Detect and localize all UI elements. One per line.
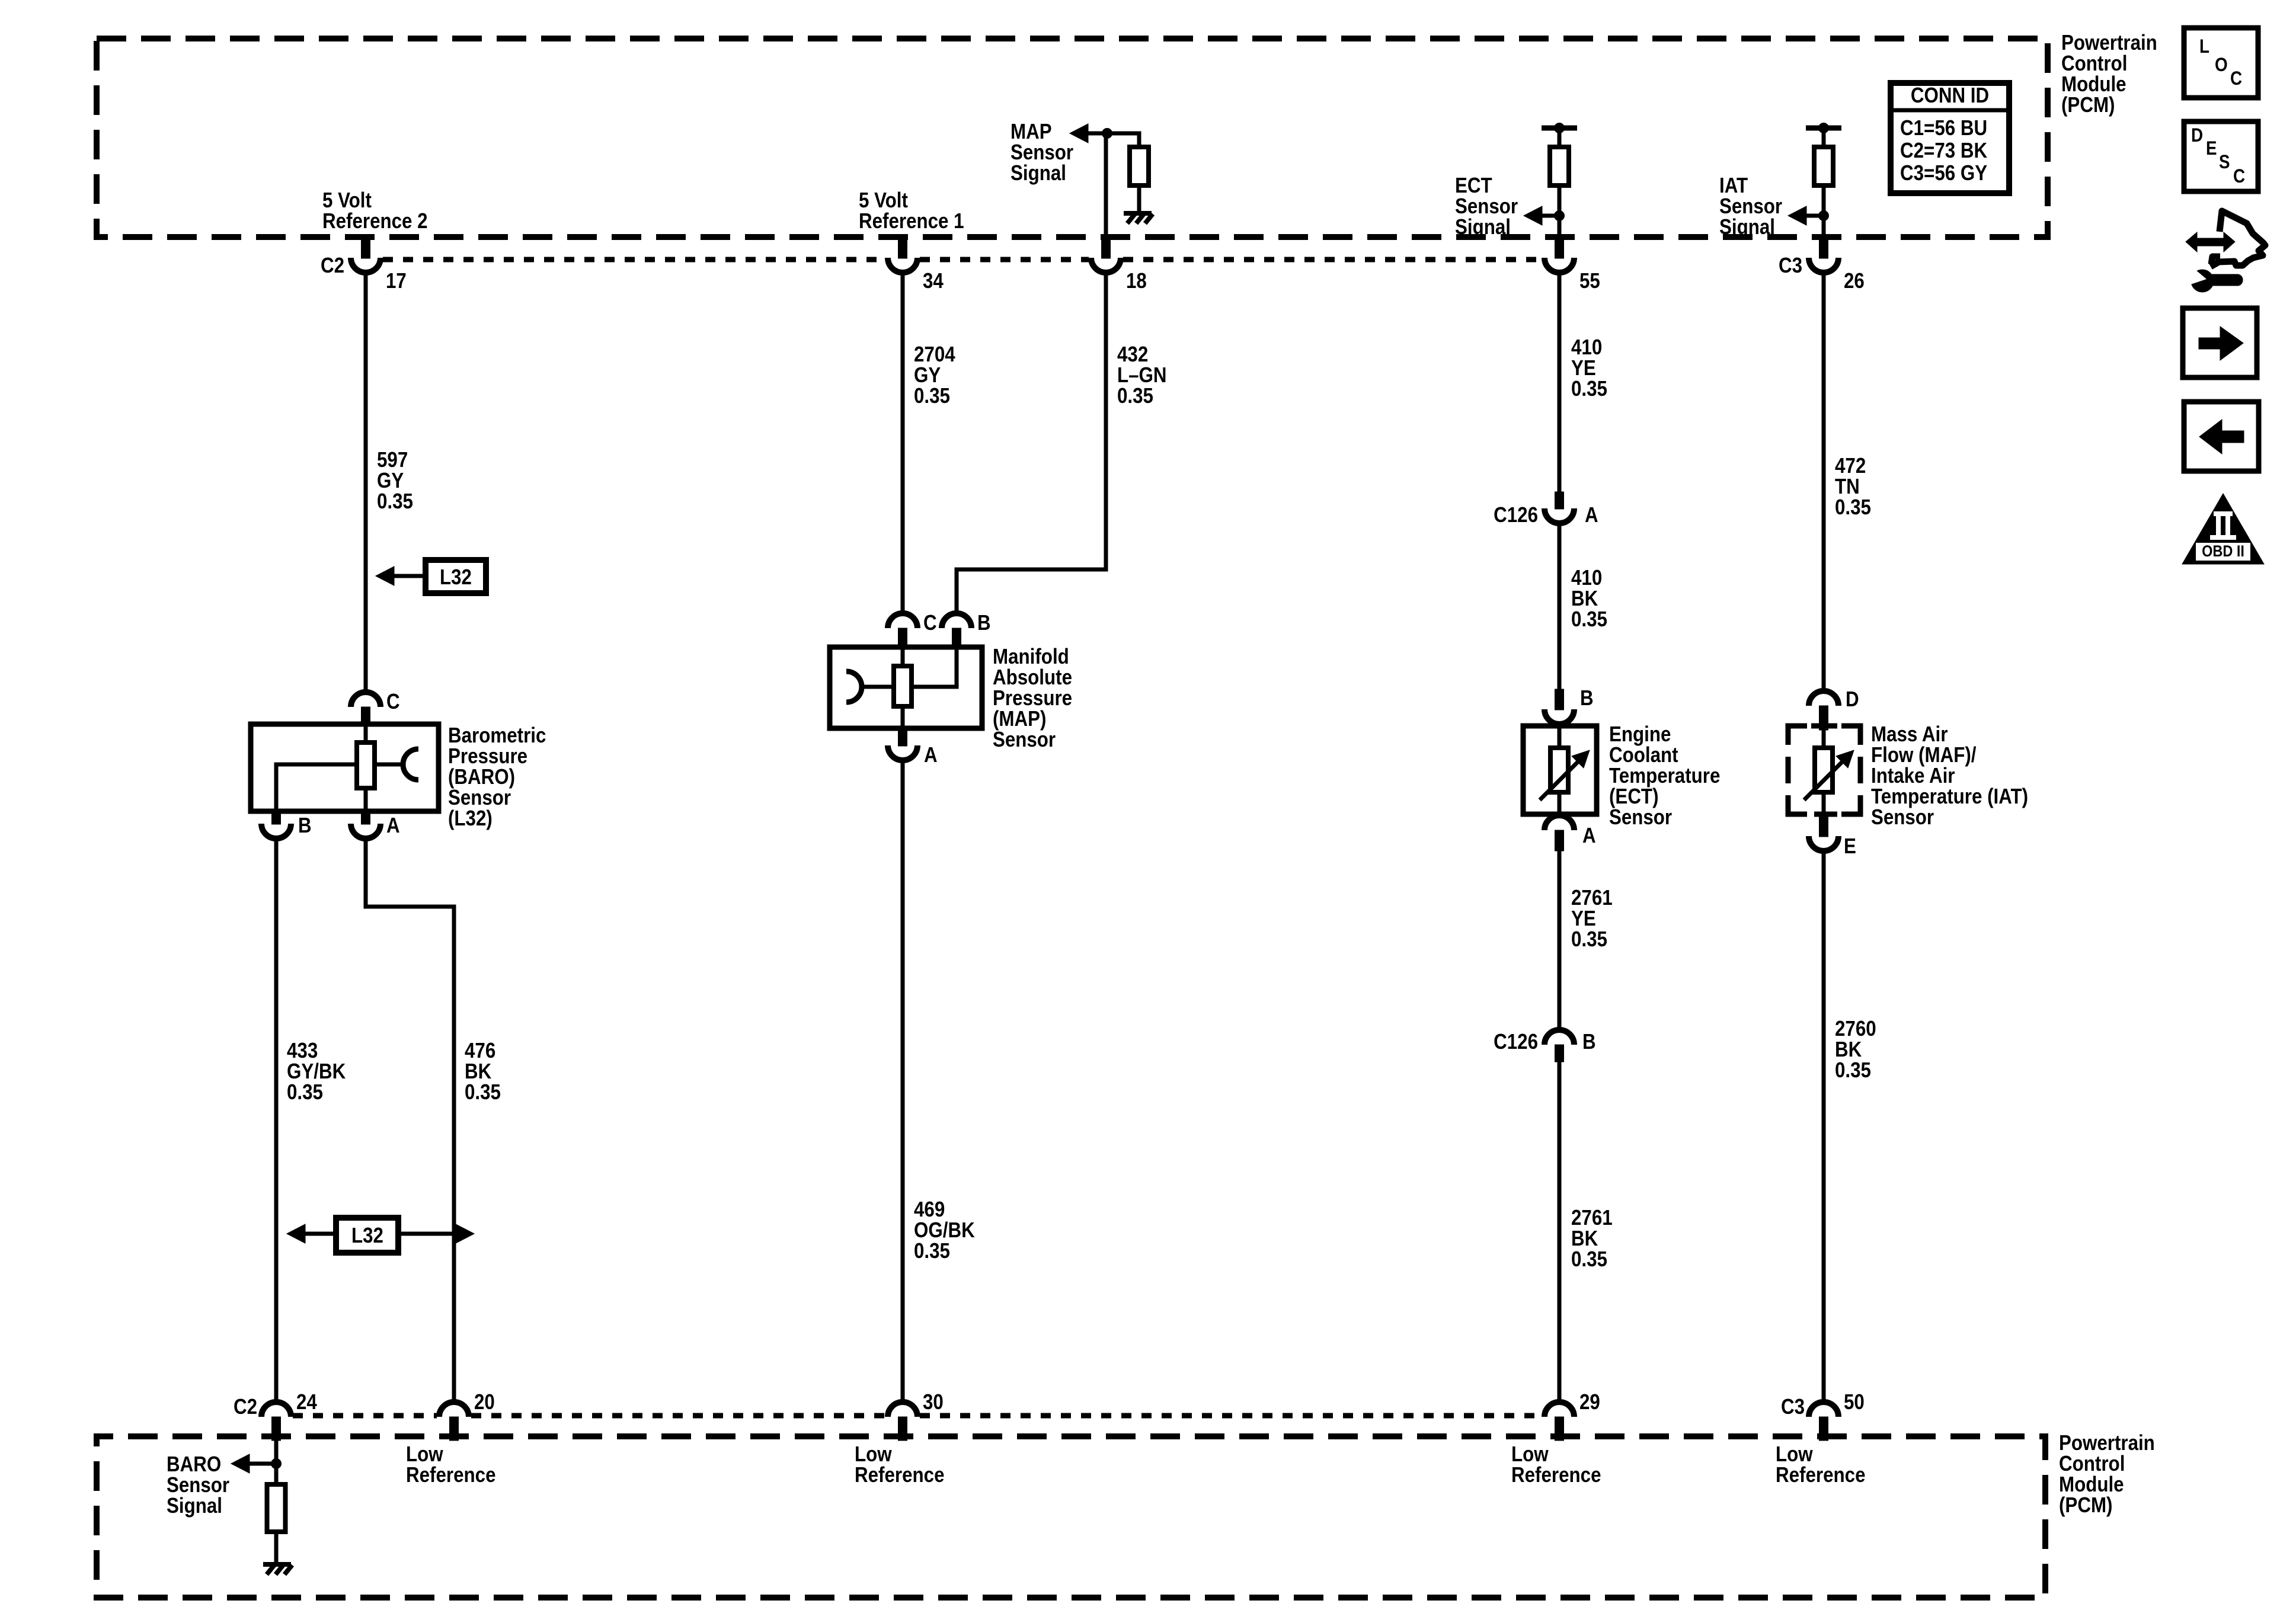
svg-text:O: O: [2215, 54, 2228, 75]
svg-text:0.35: 0.35: [1571, 927, 1607, 951]
svg-text:0.35: 0.35: [1835, 495, 1871, 519]
svg-text:OBD II: OBD II: [2202, 542, 2244, 560]
BARO pressure port line: [372, 763, 404, 767]
svg-text:0.35: 0.35: [1835, 1058, 1871, 1082]
wire R3 to junction: [1822, 185, 1826, 218]
svg-text:B: B: [298, 813, 312, 837]
MAP pressure port arc: [846, 671, 862, 702]
bottom connector dotted line C2: [293, 1413, 437, 1419]
wire 476 BK (BARO A jog to pin 20): [366, 838, 454, 1403]
svg-text:Signal: Signal: [167, 1493, 222, 1518]
svg-text:Reference: Reference: [1511, 1462, 1601, 1487]
BARO signal junction dot: [271, 1459, 282, 1469]
PCM module box (bottom): [97, 1436, 2045, 1598]
ECT internal wire element to A: [1558, 792, 1562, 814]
L32 callout box (lower): [336, 1218, 398, 1253]
svg-text:A: A: [924, 742, 938, 767]
wire 410 YE (pin 55 to C126 A): [1558, 272, 1562, 493]
wire R4 to ground: [274, 1532, 279, 1566]
svg-text:24: 24: [296, 1390, 317, 1414]
svg-text:Sensor: Sensor: [993, 727, 1056, 751]
wire 469 OG-BK (MAP A to pin 30): [901, 760, 905, 1403]
wire junction to resistor R-MAP: [1107, 133, 1139, 149]
PCM connector pin 30 (bottom): [888, 1402, 917, 1417]
svg-text:(PCM): (PCM): [2061, 92, 2115, 117]
PCM connector pin 34 (top): [898, 235, 907, 258]
OBD II icon pillar symbol: [2214, 511, 2233, 516]
svg-text:0.35: 0.35: [287, 1080, 323, 1104]
svg-text:A: A: [1585, 502, 1598, 527]
PCM connector pin 20 (bottom): [439, 1402, 469, 1417]
svg-text:C2: C2: [321, 253, 344, 277]
svg-text:B: B: [977, 610, 991, 635]
wire pin 18 to junction: [1104, 133, 1108, 236]
svg-text:B: B: [1580, 686, 1594, 710]
IAT bias terminal cap: [1806, 126, 1841, 131]
svg-text:D: D: [1846, 687, 1859, 711]
svg-text:Sensor: Sensor: [1871, 805, 1934, 829]
svg-text:0.35: 0.35: [914, 383, 950, 408]
svg-text:50: 50: [1844, 1390, 1865, 1414]
PCM connector pin 18 (top): [1102, 235, 1111, 258]
BARO internal wire C to element: [364, 726, 368, 744]
PCM connector pin 50 (bottom): [1809, 1402, 1838, 1417]
wire junction to pin 55: [1558, 216, 1562, 236]
PCM connector pin 29 (bottom): [1544, 1402, 1574, 1417]
MAP pressure port line: [861, 685, 894, 689]
svg-text:Reference 1: Reference 1: [859, 209, 964, 233]
svg-text:C126: C126: [1494, 1029, 1538, 1054]
ECT internal wire to element: [1558, 726, 1562, 750]
BARO pin B connector: [272, 811, 281, 824]
LOC icon box: [2184, 28, 2258, 98]
MAP signal arrow: [1086, 132, 1107, 136]
MAF/IAT sensor dashed box: [1788, 726, 1860, 814]
wire 472 TN (pin C3-26 to MAF D): [1822, 272, 1826, 692]
svg-text:18: 18: [1126, 268, 1147, 293]
MAF pin D connector: [1809, 691, 1838, 706]
BARO pin A connector: [362, 811, 370, 824]
wire 2760 BK (MAF E to pin C3-50): [1822, 850, 1826, 1403]
svg-text:Sensor: Sensor: [1609, 805, 1672, 829]
svg-text:Reference 2: Reference 2: [322, 209, 428, 233]
svg-text:Reference: Reference: [855, 1462, 945, 1487]
L32 callout box (upper): [426, 560, 486, 593]
connector test icon wrench: [2191, 270, 2214, 292]
MAP internal wire element to A: [901, 706, 905, 728]
back arrow icon box: [2184, 402, 2259, 471]
svg-text:0.35: 0.35: [1117, 383, 1153, 408]
svg-text:C126: C126: [1494, 502, 1538, 527]
svg-text:CONN ID: CONN ID: [1911, 83, 1989, 107]
svg-text:(PCM): (PCM): [2059, 1493, 2113, 1517]
wire R2 to junction: [1558, 185, 1562, 218]
svg-text:L32: L32: [440, 565, 472, 589]
wire pin 24 to resistor R4: [274, 1441, 279, 1486]
inline connector C126 pin B: [1544, 1030, 1574, 1045]
wire 410 BK (C126 A to ECT B): [1558, 523, 1562, 690]
IAT signal junction dot: [1819, 211, 1829, 221]
top connector dotted line C2: [383, 257, 885, 263]
wire 597 GY (pin 17 to BARO C): [364, 272, 368, 693]
OBD II icon label band: [2196, 543, 2250, 561]
PCM connector pin 17 (top): [362, 235, 370, 258]
svg-text:C3: C3: [1781, 1394, 1805, 1419]
MAP pin C connector: [888, 613, 917, 628]
svg-text:17: 17: [386, 268, 407, 293]
svg-text:26: 26: [1844, 268, 1865, 293]
connector test icon double arrow: [2186, 232, 2235, 252]
ECT sensor box: [1523, 726, 1597, 814]
BARO sensor signal arrow: [247, 1462, 276, 1466]
svg-text:34: 34: [923, 268, 944, 293]
PCM connector pin 55 (top): [1555, 235, 1564, 258]
ECT signal junction dot: [1555, 211, 1565, 221]
svg-text:L: L: [2199, 36, 2209, 57]
svg-text:A: A: [386, 813, 400, 837]
ECT bias terminal cap: [1542, 126, 1577, 131]
ECT thermistor arrow: [1540, 762, 1578, 800]
BARO internal wire element to A: [364, 788, 368, 811]
connector test icon connector outline: [2211, 211, 2265, 267]
MAP internal wire C to element: [901, 647, 905, 668]
BARO pressure port arc: [403, 749, 418, 780]
pull-down resistor R1 (MAP): [1130, 147, 1149, 185]
svg-text:C: C: [2230, 68, 2242, 89]
PCM connector pin 24 (bottom): [261, 1402, 291, 1417]
MAP internal wire element to B: [912, 647, 957, 687]
svg-text:29: 29: [1579, 1390, 1600, 1414]
svg-text:C: C: [2233, 165, 2245, 187]
svg-text:S: S: [2219, 151, 2230, 172]
svg-text:Signal: Signal: [1455, 215, 1511, 239]
svg-text:20: 20: [474, 1390, 495, 1414]
BARO internal wire to pin B: [276, 764, 357, 811]
svg-text:30: 30: [923, 1390, 944, 1414]
svg-text:0.35: 0.35: [1571, 1247, 1607, 1271]
MAF thermistor resistor: [1815, 748, 1833, 792]
svg-text:55: 55: [1579, 268, 1600, 293]
svg-text:C: C: [923, 610, 937, 635]
MAP pin A connector: [898, 728, 907, 746]
svg-text:Signal: Signal: [1011, 161, 1066, 185]
MAP signal junction dot: [1102, 129, 1112, 139]
svg-text:C1=56 BU: C1=56 BU: [1900, 116, 1987, 140]
ECT signal arrow: [1540, 214, 1559, 218]
svg-text:A: A: [1582, 823, 1596, 847]
svg-text:C3=56 GY: C3=56 GY: [1900, 161, 1987, 185]
MAF internal wire element to E: [1822, 792, 1826, 814]
svg-text:Reference: Reference: [406, 1462, 496, 1487]
DESC icon box: [2184, 121, 2258, 191]
ECT pin A connector: [1544, 815, 1574, 830]
BARO sensing element resistor: [357, 742, 375, 788]
svg-text:D: D: [2191, 124, 2203, 146]
svg-text:Signal: Signal: [1719, 215, 1775, 239]
svg-text:C: C: [386, 689, 400, 713]
ECT pin B connector: [1555, 689, 1564, 710]
ECT thermistor resistor: [1550, 748, 1568, 792]
svg-text:(L32): (L32): [448, 806, 493, 830]
svg-text:C2: C2: [234, 1394, 257, 1419]
ground G1 (MAP signal): [1124, 211, 1152, 216]
wire 433 GY-BK (BARO B to pin 24): [274, 838, 279, 1403]
PCM module box (top): [97, 39, 2048, 237]
svg-text:0.35: 0.35: [1571, 607, 1607, 631]
L32 callout box (lower) arrows: [303, 1232, 336, 1236]
svg-text:Reference: Reference: [1776, 1462, 1866, 1487]
wire 2761 BK (C126 B to pin 29): [1558, 1061, 1562, 1403]
CONN ID table box: [1891, 83, 2009, 193]
forward arrow icon: [2199, 338, 2221, 349]
svg-text:E: E: [1844, 834, 1856, 858]
svg-text:0.35: 0.35: [465, 1080, 501, 1104]
svg-text:E: E: [2206, 137, 2217, 159]
MAP pin B connector: [942, 613, 971, 628]
MAF thermistor arrow: [1804, 762, 1842, 800]
pull-up resistor R4 (BARO): [267, 1484, 286, 1532]
wire 2761 YE (ECT A to C126 B): [1558, 850, 1562, 1031]
IAT signal arrow: [1804, 214, 1824, 218]
bias resistor R3 (IAT): [1814, 147, 1833, 185]
BARO pin C connector: [351, 692, 380, 707]
svg-text:C2=73 BK: C2=73 BK: [1900, 138, 1987, 162]
svg-text:L32: L32: [351, 1223, 383, 1247]
MAP sensing element resistor: [894, 666, 912, 706]
wire 432 L-GN (pin 18 to MAP B): [957, 272, 1106, 614]
wire cap to resistor R3: [1822, 128, 1826, 149]
back arrow icon: [2221, 431, 2244, 443]
BARO sensor box: [251, 724, 439, 811]
MAP sensor box: [830, 647, 982, 728]
svg-text:C3: C3: [1779, 253, 1802, 277]
ground G2 (BARO signal): [263, 1562, 291, 1567]
OBD II icon triangle: [2182, 494, 2264, 564]
svg-text:0.35: 0.35: [1571, 376, 1607, 401]
svg-text:B: B: [1582, 1029, 1596, 1054]
L32 callout arrow (upper): [392, 574, 426, 578]
wire 2704 GY (pin 34 to MAP C): [901, 272, 905, 614]
MAF internal wire to element: [1822, 730, 1826, 750]
svg-text:0.35: 0.35: [914, 1238, 950, 1263]
wire R1 to ground: [1137, 185, 1141, 215]
PCM connector pin 26 (top): [1819, 235, 1828, 258]
wire cap to resistor R2: [1558, 128, 1562, 149]
forward arrow icon box: [2183, 308, 2257, 377]
inline connector C126 pin A: [1555, 492, 1564, 509]
MAF pin E connector: [1819, 814, 1828, 837]
bias resistor R2 (ECT): [1550, 147, 1569, 185]
wire junction to pin C3-26: [1822, 216, 1826, 236]
svg-text:0.35: 0.35: [377, 489, 413, 513]
